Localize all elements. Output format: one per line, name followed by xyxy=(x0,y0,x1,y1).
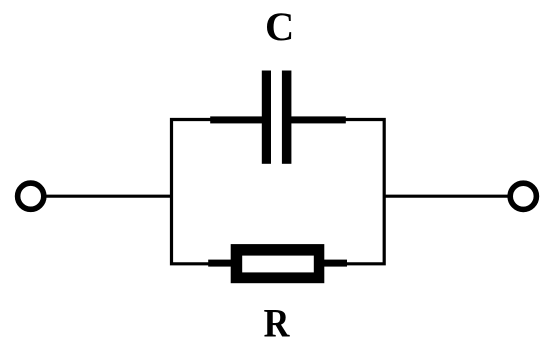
svg-text:R: R xyxy=(264,301,291,346)
svg-text:C: C xyxy=(265,4,294,49)
